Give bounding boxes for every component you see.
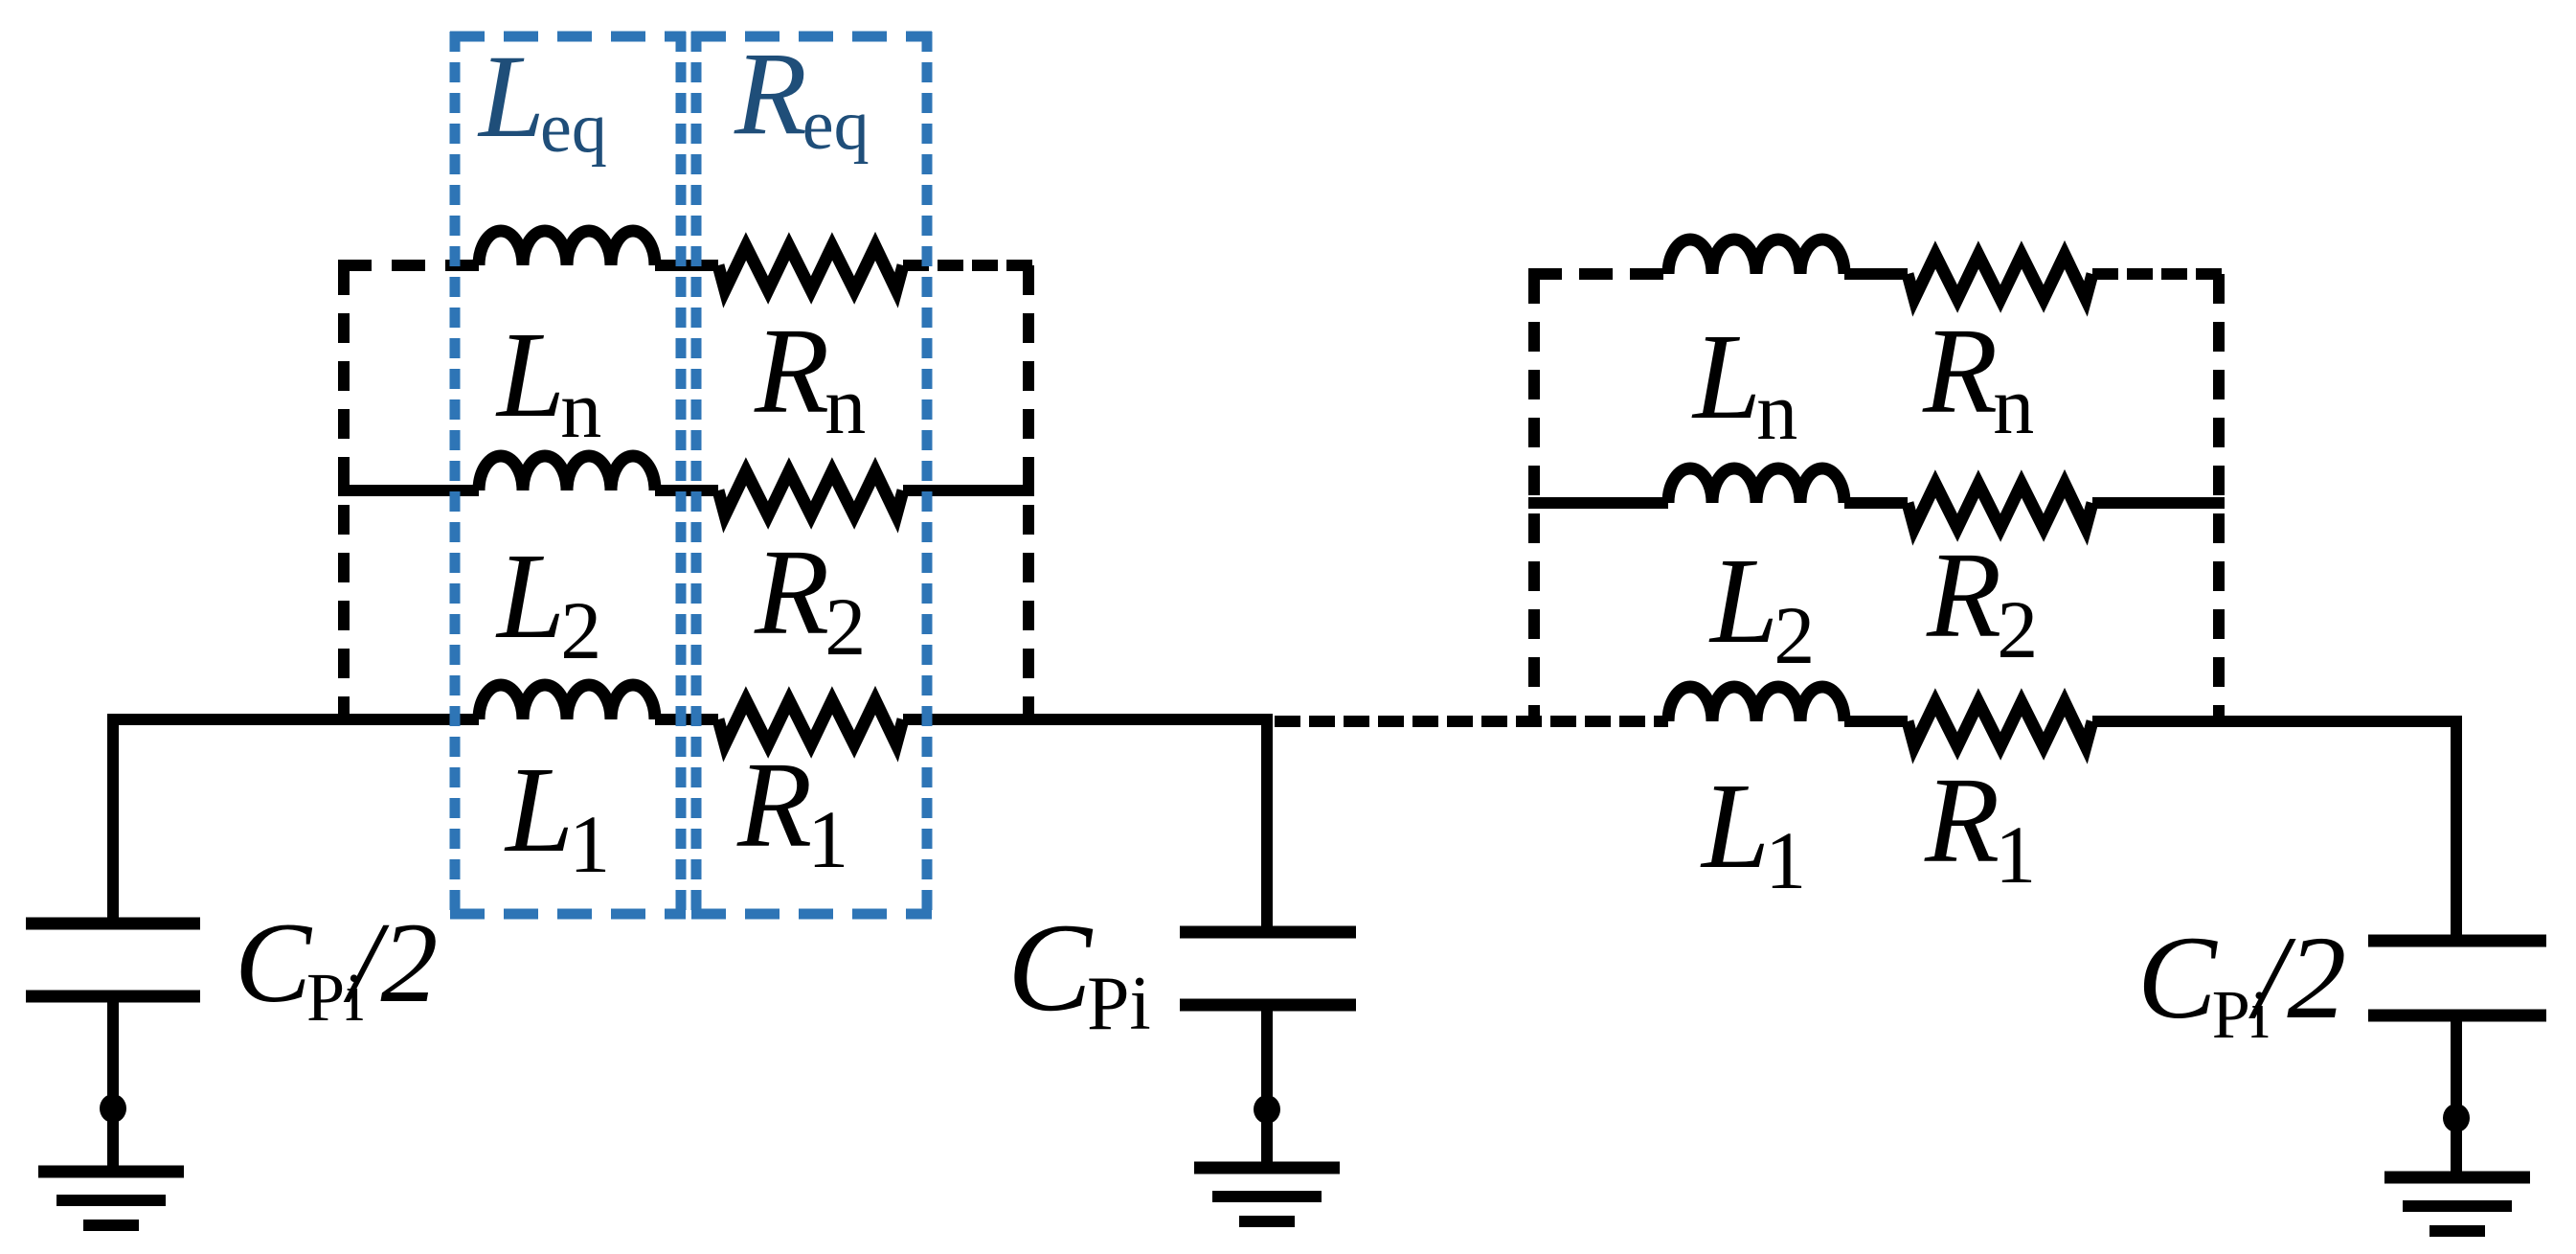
ground (right): [2384, 1172, 2530, 1184]
wire: bottom rail to centre node: [903, 714, 1272, 725]
wire: middle branch left: [338, 485, 479, 496]
junction dot (right): [2443, 1104, 2470, 1132]
resistor R2 (right ladder): [1908, 484, 2092, 528]
wire: right vertical down to CPi/2: [2451, 716, 2462, 937]
wire: right ladder top branch right (dashed): [2092, 268, 2225, 280]
wire: right cap to ground: [2451, 1021, 2462, 1177]
wire: left vertical down to CPi/2: [107, 714, 119, 920]
wire: right ladder top branch left (dashed): [1528, 268, 1668, 280]
resistor R2 (left ladder): [718, 471, 903, 515]
capacitor CPi/2 (right): [2368, 935, 2546, 947]
equivalent-inductance box Leq (blue dashed): [450, 32, 686, 919]
resistor R1 (right ladder): [1908, 702, 2092, 746]
inductor L2 (right ladder): [1668, 468, 1844, 503]
junction dot (centre): [1254, 1095, 1280, 1124]
wire: bottom rail right segment: [2092, 716, 2462, 727]
wire: bottom rail left segment: [107, 714, 479, 725]
capacitor CPi/2 (left): [26, 918, 200, 930]
junction dot (left): [100, 1094, 126, 1123]
wire: left cap to ground: [107, 1002, 119, 1172]
left ladder: left bus (dashed vertical): [338, 265, 350, 719]
wire: right ladder middle branch right: [2092, 497, 2225, 509]
wire: bottom rail between L1 and R1: [655, 714, 718, 725]
wire: right ladder middle branch left: [1528, 497, 1668, 509]
inductor L1 (left ladder): [479, 685, 655, 719]
wire: top branch left (dashed): [338, 260, 479, 271]
resistor Rn (left ladder): [718, 246, 903, 290]
wire: centre cap to ground: [1261, 1011, 1273, 1168]
inductor Ln (right ladder): [1668, 239, 1844, 274]
inductor Ln (left ladder): [479, 231, 655, 265]
right ladder: left bus (dashed vertical): [1528, 274, 1540, 721]
resistor Rn (right ladder): [1908, 255, 2092, 299]
inductor L2 (left ladder): [479, 456, 655, 490]
wire: top branch right (dashed): [903, 260, 1034, 271]
resistor R1 (left ladder): [718, 700, 903, 744]
wire: right ladder top branch mid: [1844, 268, 1908, 280]
ground (left): [38, 1166, 184, 1178]
right ladder: right bus (dashed vertical): [2213, 274, 2225, 721]
inductor L1 (right ladder): [1668, 687, 1844, 721]
wire: middle branch mid: [655, 485, 718, 496]
ground (centre): [1194, 1162, 1340, 1174]
wire: right ladder middle branch mid: [1844, 497, 1908, 509]
wire: middle branch right: [903, 485, 1034, 496]
wire: top branch mid: [655, 260, 718, 271]
left ladder: right bus (dashed vertical): [1023, 265, 1034, 719]
node A: centre node vertical wire: [1261, 714, 1273, 928]
wire: dashed rail from centre node to right ladder: [1275, 716, 1668, 727]
capacitor CPi (centre): [1180, 926, 1356, 939]
wire: right ladder bottom between L1 and R1: [1844, 716, 1908, 727]
equivalent-resistance box Req (blue dashed): [691, 32, 932, 919]
